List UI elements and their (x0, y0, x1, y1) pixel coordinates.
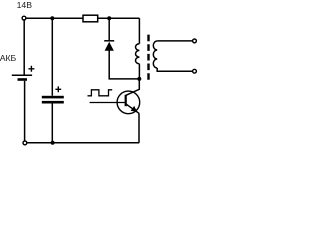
wire collector lead (126, 79, 140, 96)
wire primary bottom to junction (138, 64, 140, 79)
transformer T1 primary winding (136, 44, 140, 64)
node junction capacitor bottom (51, 141, 55, 145)
transistor VT1 circle (117, 91, 140, 114)
transistor VT1 emitter with arrow (126, 104, 139, 113)
capacitor C1 top plate (42, 96, 64, 99)
terminal X3 secondary output top (193, 39, 197, 43)
wire left column: battery down to ground terminal (24, 81, 26, 141)
wire right column: top corner down to primary coil (138, 18, 140, 44)
node junction collector / primary bottom (137, 77, 141, 81)
wire diode anode lead down and right to collector node (109, 51, 139, 79)
transformer T1 secondary winding (153, 41, 157, 68)
wire secondary bottom lead to output terminal (157, 68, 192, 71)
node junction diode cathode top (107, 16, 111, 20)
battery GB1 negative plate (18, 78, 28, 81)
terminal X2 ground (23, 141, 27, 145)
wire capacitor bottom lead (51, 104, 53, 143)
wire diode cathode lead (108, 18, 110, 40)
wire left column: terminal down to battery (23, 20, 25, 75)
resistor R1 (83, 15, 98, 22)
capacitor C1 bottom plate (42, 101, 64, 104)
svg-text:14В: 14В (17, 0, 33, 10)
battery GB1 plus sign (28, 66, 34, 72)
transformer T1 core (dashed) (147, 35, 149, 81)
wire top rail: resistor to corner (98, 17, 140, 19)
node junction capacitor top (50, 16, 54, 20)
wire base lead (90, 102, 125, 104)
svg-text:АКБ: АКБ (0, 53, 17, 63)
pulse input symbol (square wave) (88, 90, 113, 96)
battery GB1 positive plate (12, 74, 32, 76)
capacitor C1 plus sign (55, 86, 61, 92)
terminal X4 secondary output bottom (193, 69, 197, 73)
wire capacitor top lead (51, 18, 53, 96)
terminal X1 +14V input (22, 16, 26, 20)
wire secondary top lead to output terminal (157, 40, 192, 42)
transistor VT1 base bar (125, 95, 127, 106)
diode VD1 triangle (anode, pointing up) (105, 42, 114, 51)
wire emitter down to bottom rail (138, 113, 140, 143)
wire bottom rail (27, 142, 139, 144)
diode VD1 cathode bar (104, 40, 114, 42)
wire top rail: terminal to resistor (26, 17, 83, 19)
